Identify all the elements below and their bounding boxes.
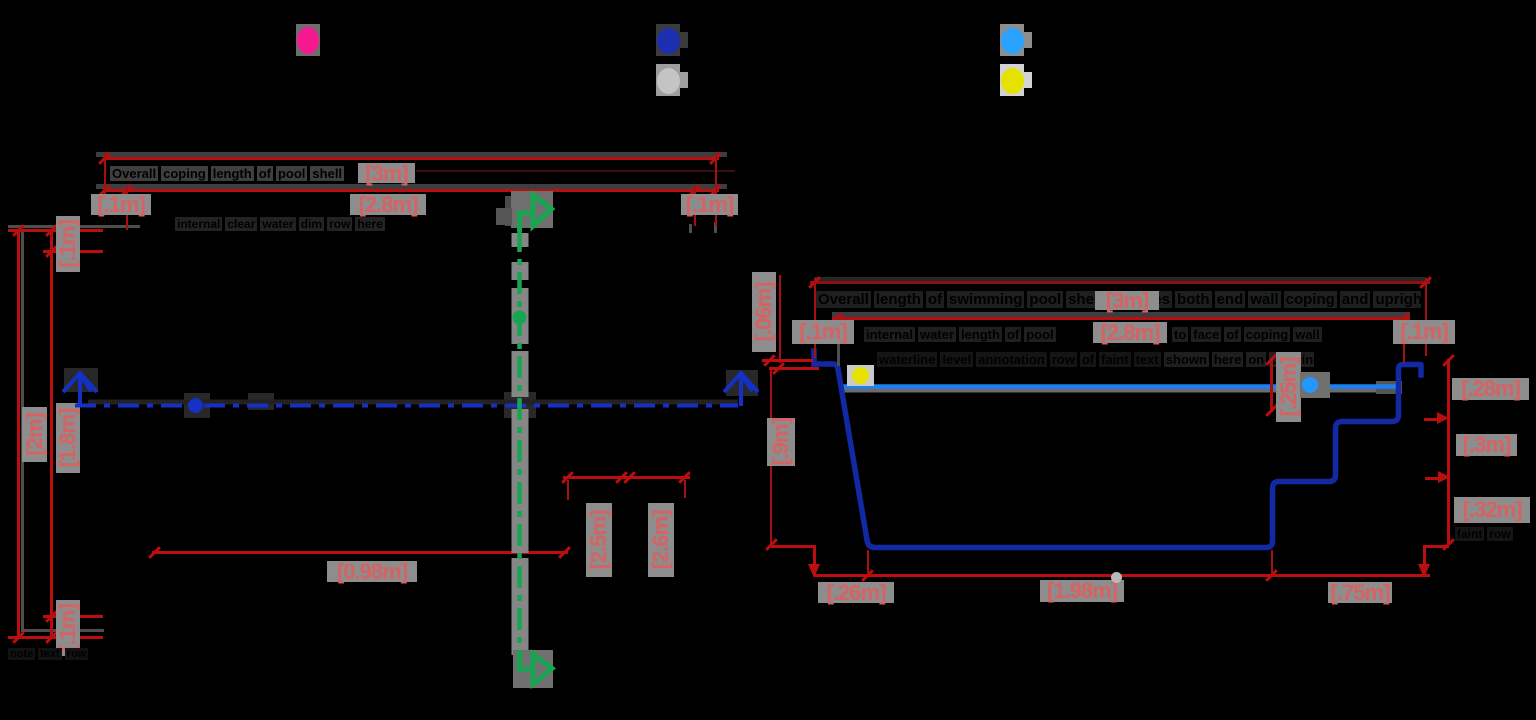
label [3m] right xyxy=(1095,291,1159,310)
[.06m] rotated dim xyxy=(779,275,781,363)
label [3m] xyxy=(358,163,415,183)
gray stub right 2 xyxy=(714,222,717,233)
dim line [3m] top xyxy=(103,157,719,160)
blue marker xyxy=(1300,372,1330,398)
dim line vertical [2m] xyxy=(17,229,20,639)
arrow right at 478 xyxy=(1425,477,1443,480)
yellow marker xyxy=(847,365,874,386)
centreline marker dot xyxy=(188,398,203,413)
deck line gray xyxy=(96,184,727,189)
gray vertical left wall xyxy=(21,232,24,632)
strips B' xyxy=(864,326,1091,343)
dim line [3m] right xyxy=(810,281,1430,284)
arrow right at 419 xyxy=(1424,418,1442,421)
waterline shadow (gray) xyxy=(841,389,1397,393)
small dim lines at coping xyxy=(762,359,813,362)
right step dim chain xyxy=(1447,359,1450,545)
[.9m] dim xyxy=(770,369,772,545)
centreline arrow left xyxy=(63,373,97,406)
upper gray line left xyxy=(8,225,140,228)
gray stub right 1 xyxy=(689,224,692,233)
faint strip along centreline xyxy=(88,400,738,405)
section arrow top xyxy=(496,208,512,225)
ext hline bottom outer xyxy=(8,636,103,639)
dim line [0.98m] xyxy=(152,551,568,554)
centreline (blue dashed) xyxy=(75,404,738,408)
legend swatch yellow xyxy=(1000,64,1024,96)
middle waterline dim xyxy=(1270,358,1273,412)
labels right chain xyxy=(1452,378,1529,400)
deck line gray upper xyxy=(96,152,727,157)
legend swatch gray xyxy=(656,64,680,96)
centreline arrow right xyxy=(724,373,758,406)
waterline end bbox xyxy=(1376,381,1402,394)
rotated label [2m] xyxy=(22,407,47,462)
label [2.8m] right xyxy=(1093,322,1167,343)
section arrow bottom xyxy=(520,652,534,669)
label [.1m] left xyxy=(91,194,151,215)
label [2.8m] xyxy=(350,194,426,215)
bottom dim chain xyxy=(814,574,1430,577)
gray band above 3m right xyxy=(814,277,1426,281)
gray marker dot on bottom dim xyxy=(1111,572,1122,583)
label [.1m] right xyxy=(681,194,738,215)
down arrow at 814 xyxy=(808,564,820,578)
gray bottom line xyxy=(24,629,104,632)
dark bbox hints on centreline xyxy=(64,368,758,418)
legend swatch pink xyxy=(296,24,320,56)
strip A' + [3m] xyxy=(816,290,1421,310)
rotated label [2.6m] xyxy=(648,503,674,577)
rotated label [1.8m] xyxy=(56,403,80,473)
legend swatch light blue xyxy=(1000,24,1024,56)
broken dim [2.5m]/[2.6m] xyxy=(563,476,690,479)
faint bottom note xyxy=(8,647,133,661)
faint note row B xyxy=(175,217,430,232)
rotated label [.1m] top xyxy=(56,216,80,272)
label [.1m] right xyxy=(1393,320,1455,344)
faint hidden dim line xyxy=(416,170,735,172)
rotated label [.1m] bottom xyxy=(56,600,80,656)
dim line [2.8m] right xyxy=(832,317,1410,320)
extension lines top dims xyxy=(104,152,106,214)
ext hline top outer xyxy=(8,229,103,232)
text strip A with [3m] xyxy=(96,165,372,182)
faint note row C' xyxy=(877,352,1314,368)
ext hline top inner xyxy=(43,250,103,253)
gray label strip along section line xyxy=(505,191,553,688)
pool shell profile (dark blue) xyxy=(814,351,1421,548)
ext hline bottom inner xyxy=(43,615,103,618)
dim line [2.8m] xyxy=(103,189,719,192)
label [.1m] left xyxy=(792,320,854,344)
gray band above 2.8m right xyxy=(832,312,1410,317)
extension lines xyxy=(814,278,816,358)
waterline (light blue) xyxy=(840,384,1397,389)
dim line vertical [1.8m] xyxy=(50,229,53,639)
legend swatch dark blue xyxy=(656,24,680,56)
section line (green dashed) xyxy=(517,230,522,658)
section line node xyxy=(513,311,527,325)
label [0.98m] xyxy=(327,561,417,582)
labels bottom xyxy=(818,582,894,603)
rotated label [2.5m] xyxy=(586,503,612,577)
